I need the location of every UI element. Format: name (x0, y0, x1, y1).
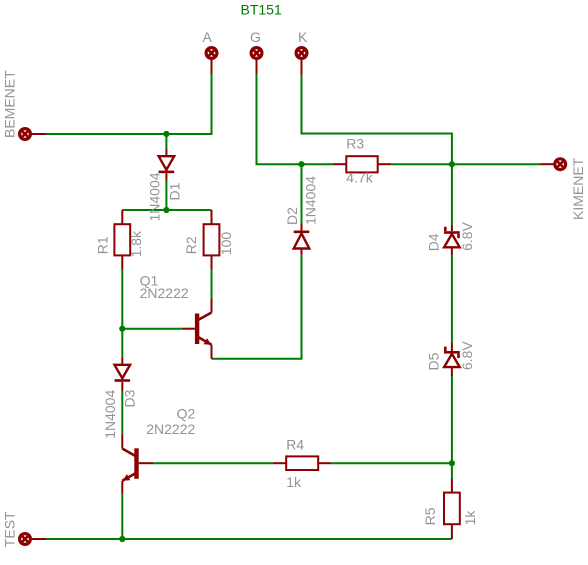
zener D4 (444, 225, 460, 255)
svg-text:1k: 1k (286, 474, 302, 490)
junction node D1-R1R2 (163, 207, 169, 213)
svg-text:D2: D2 (284, 207, 300, 225)
wire D2 top (301, 164, 303, 223)
svg-text:BEMENET: BEMENET (2, 70, 18, 138)
svg-text:TEST: TEST (2, 511, 18, 547)
resistor R3 (333, 156, 391, 172)
junction node G-D2 (298, 161, 304, 167)
terminal BEMENET (20, 129, 46, 140)
svg-text:D5: D5 (426, 352, 442, 370)
wire G down to R3 row (257, 74, 302, 164)
resistor R1 (114, 210, 130, 269)
terminal TEST (20, 534, 46, 545)
wire R4 right (332, 462, 452, 464)
junction node R1-Q1base-D3 (119, 326, 125, 332)
terminal K (296, 48, 307, 75)
svg-text:D1: D1 (167, 182, 183, 200)
wire R5 top (451, 463, 453, 479)
svg-text:1.8k: 1.8k (128, 230, 144, 257)
junction node BEMENET-D1 (163, 131, 169, 137)
svg-text:G: G (250, 29, 261, 45)
wire D4 to D5 (451, 255, 453, 343)
transistor Q1 (182, 299, 212, 359)
svg-text:6.8V: 6.8V (459, 221, 475, 250)
wire Q2 base to R4 (153, 462, 273, 464)
svg-text:R3: R3 (346, 136, 364, 152)
svg-text:BT151: BT151 (241, 2, 282, 18)
svg-text:1N4004: 1N4004 (102, 390, 118, 439)
transistor Q2 (122, 434, 153, 493)
svg-text:K: K (298, 29, 308, 45)
wire D1 bottom (165, 181, 167, 211)
wire bottom rail (46, 538, 452, 540)
diode D3 (115, 358, 131, 391)
wire D3 bottom to Q2 collector (121, 391, 123, 434)
zener D5 (444, 343, 460, 377)
wire to KIMENET (452, 163, 541, 165)
svg-text:A: A (203, 29, 213, 45)
wire R1 R2 top row (122, 209, 211, 211)
svg-text:1N4004: 1N4004 (147, 172, 163, 221)
svg-text:2N2222: 2N2222 (146, 421, 195, 437)
svg-text:Q2: Q2 (177, 406, 196, 422)
diode D2 (294, 223, 310, 255)
diode D1 (159, 150, 175, 181)
junction node R3-K (449, 161, 455, 167)
svg-text:100: 100 (218, 232, 234, 256)
wire D3 top (121, 329, 123, 358)
svg-text:KIMENET: KIMENET (570, 157, 586, 220)
wire D1 top (165, 134, 167, 150)
svg-text:R2: R2 (183, 236, 199, 254)
terminal KIMENET (541, 159, 566, 170)
svg-text:R5: R5 (422, 507, 438, 525)
resistor R4 (273, 456, 332, 470)
svg-text:6.8V: 6.8V (459, 341, 475, 370)
wire R3 row left (302, 163, 334, 165)
svg-text:1k: 1k (462, 510, 478, 526)
svg-text:1N4004: 1N4004 (303, 176, 319, 225)
wire R1 bottom (121, 269, 123, 329)
svg-text:D4: D4 (426, 233, 442, 251)
wire Q2 emitter down (121, 493, 123, 539)
svg-text:2N2222: 2N2222 (140, 285, 189, 301)
wire D4 top (451, 164, 453, 225)
svg-text:R4: R4 (286, 437, 304, 453)
wire R2 bottom to Q1 collector (211, 269, 213, 299)
wire Q1 base (122, 328, 182, 330)
wire D5 to R4 junction (451, 376, 453, 463)
terminal A (206, 48, 217, 74)
wire Q1 emitter row to D2 bottom (212, 255, 302, 358)
svg-text:4.7k: 4.7k (346, 170, 373, 186)
wire BEMENET row to A (46, 74, 212, 134)
resistor R2 (204, 210, 220, 269)
svg-text:D3: D3 (122, 389, 138, 407)
junction node TEST-Q2 (119, 536, 125, 542)
wire R3 row right (391, 163, 452, 165)
terminal G (251, 48, 262, 74)
junction node R4-R5 (449, 460, 455, 466)
resistor R5 (444, 479, 460, 539)
svg-text:R1: R1 (95, 236, 111, 254)
wire K jog to right column (302, 75, 452, 164)
